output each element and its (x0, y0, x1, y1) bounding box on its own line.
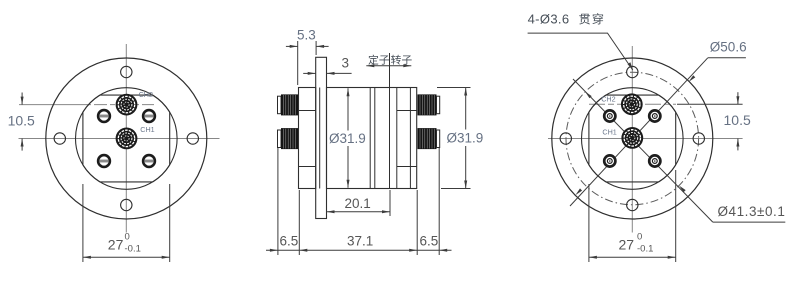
body section line b (side view) (374, 88, 376, 189)
dimension 6.5 right (side view) (417, 148, 451, 255)
svg-text:5.3: 5.3 (297, 28, 316, 43)
dimension 20.1 (side view) (327, 190, 391, 216)
body square 27mm with corner arcs on circle (front view) (83, 95, 170, 182)
dimension 5.3 (side view) (286, 41, 329, 85)
centerline vertical (front view) (125, 44, 127, 233)
svg-text:CH1: CH1 (140, 125, 154, 134)
svg-text:37.1: 37.1 (347, 234, 373, 249)
svg-text:27: 27 (619, 237, 635, 253)
outer flange circle (front view) (46, 58, 207, 219)
screw UL (front view) (98, 110, 110, 122)
screw UR (front view) (143, 110, 155, 122)
centerline CH2 axis (front view, dash right part) (94, 104, 154, 106)
centerline vertical (rear view) (631, 46, 633, 233)
svg-text:CH2: CH2 (139, 90, 153, 99)
mounting flange plate (side view) (316, 57, 327, 218)
rotor section line (side view) (396, 88, 398, 189)
SMA connector rotor CH1 (side view, threads) (418, 128, 440, 149)
stator block bore line lower (side view) (299, 166, 316, 168)
flange hole E (front view) (187, 133, 198, 144)
svg-text:Ø41.3±0.1: Ø41.3±0.1 (718, 204, 786, 219)
dimension 6.5 left (side view) (266, 148, 299, 255)
centerline horizontal (front view) (19, 138, 220, 140)
connector CH2 (rear view) (621, 93, 643, 115)
body hidden step line (side view) (319, 88, 321, 189)
outer flange circle (rear view) (552, 58, 713, 219)
flange hole W (front view) (54, 133, 65, 144)
svg-text:0: 0 (125, 232, 130, 243)
body square 27mm with corner arcs on circle (rear view) (589, 95, 676, 182)
svg-text:Ø31.9: Ø31.9 (447, 131, 484, 146)
svg-text:3: 3 (342, 56, 350, 71)
svg-text:27: 27 (108, 237, 124, 253)
rotor end section line (side view) (409, 88, 411, 189)
rotor bore line lower (side view) (397, 166, 417, 168)
dimension 10.5 (front view) (21, 93, 23, 151)
inner circle d31.9 (front view) (76, 88, 178, 190)
connector CH1 (rear view) (621, 127, 643, 149)
diagonal dimension line d50.6 (rear view) (570, 58, 708, 206)
svg-text:Ø31.9: Ø31.9 (329, 131, 366, 146)
stator-rotor boundary line (side view) (389, 53, 391, 189)
svg-text:-0.1: -0.1 (125, 244, 141, 255)
svg-text:20.1: 20.1 (345, 196, 371, 211)
flange hole E (rear view) (693, 133, 704, 144)
centerline horizontal (rear view) (548, 138, 743, 140)
SMA connector stator CH2 (side view, threads) (278, 94, 299, 115)
flange hole N (front view) (121, 66, 132, 77)
dimension 27 0/-0.1 (rear view) (589, 170, 676, 262)
stator block (side view) (299, 88, 316, 189)
svg-text:Ø50.6: Ø50.6 (710, 40, 747, 55)
dimension d41.3 arrows (rear view) (585, 92, 592, 99)
svg-text:6.5: 6.5 (280, 234, 299, 249)
flange hole N (rear view) (627, 66, 638, 77)
screw LL (front view) (98, 155, 110, 167)
bolt circle d41.3 (rear view, dash-dot) (566, 72, 699, 205)
dimension d50.6 text and arrows (rear view) (708, 57, 746, 59)
SMA connector stator CH1 (side view, threads) (278, 128, 299, 149)
svg-text:6.5: 6.5 (420, 234, 439, 249)
leader 4-d3.6 through-hole callout (rear view) (528, 33, 633, 70)
main body d31.9 (side view) (327, 88, 417, 189)
svg-text:CH1: CH1 (602, 128, 616, 137)
dimension 10.5 (rear view) (677, 92, 743, 150)
flange hole S (rear view) (627, 199, 638, 210)
svg-text:CH2: CH2 (601, 94, 615, 103)
label zhuanzi (rotor) (391, 55, 401, 65)
SMA connector rotor CH2 (side view, threads) (418, 94, 440, 115)
dimension 27 0/-0.1 (front view) (83, 184, 170, 262)
rotor bore line upper (side view) (397, 110, 417, 112)
dimension 37.1 (side view) (299, 190, 417, 255)
screw LL (rear view) (604, 155, 615, 166)
dimension d31.9 internal (side view) (347, 88, 349, 188)
svg-text:-0.1: -0.1 (637, 244, 653, 255)
svg-text:0: 0 (637, 232, 642, 243)
centerline CH2 axis (rear view, dash part) (589, 103, 676, 105)
svg-text:4-Ø3.6: 4-Ø3.6 (528, 12, 570, 27)
connector CH2 (front view) (116, 94, 138, 116)
body section line a (side view) (369, 88, 371, 189)
label dingzi (stator) (368, 55, 378, 65)
diagonal dimension line d41.3 (rear view) (573, 79, 713, 222)
flange hole W (rear view) (560, 133, 571, 144)
dimension d31.9 right (side view) (437, 88, 471, 189)
screw UR (rear view) (649, 110, 660, 121)
dimension 3 (side view) (303, 72, 351, 74)
inner circle d31.9 (rear view) (582, 88, 684, 190)
screw UL (rear view) (604, 110, 615, 121)
svg-text:10.5: 10.5 (8, 113, 35, 129)
connector CH1 (front view) (116, 127, 138, 149)
centerline CH2 axis (front view, solid left part) (19, 104, 91, 106)
flange hole S (front view) (121, 199, 132, 210)
screw LR (rear view) (649, 155, 660, 166)
stator block bore line upper (side view) (299, 110, 316, 112)
screw LR (front view) (143, 155, 155, 167)
svg-text:10.5: 10.5 (724, 112, 751, 128)
